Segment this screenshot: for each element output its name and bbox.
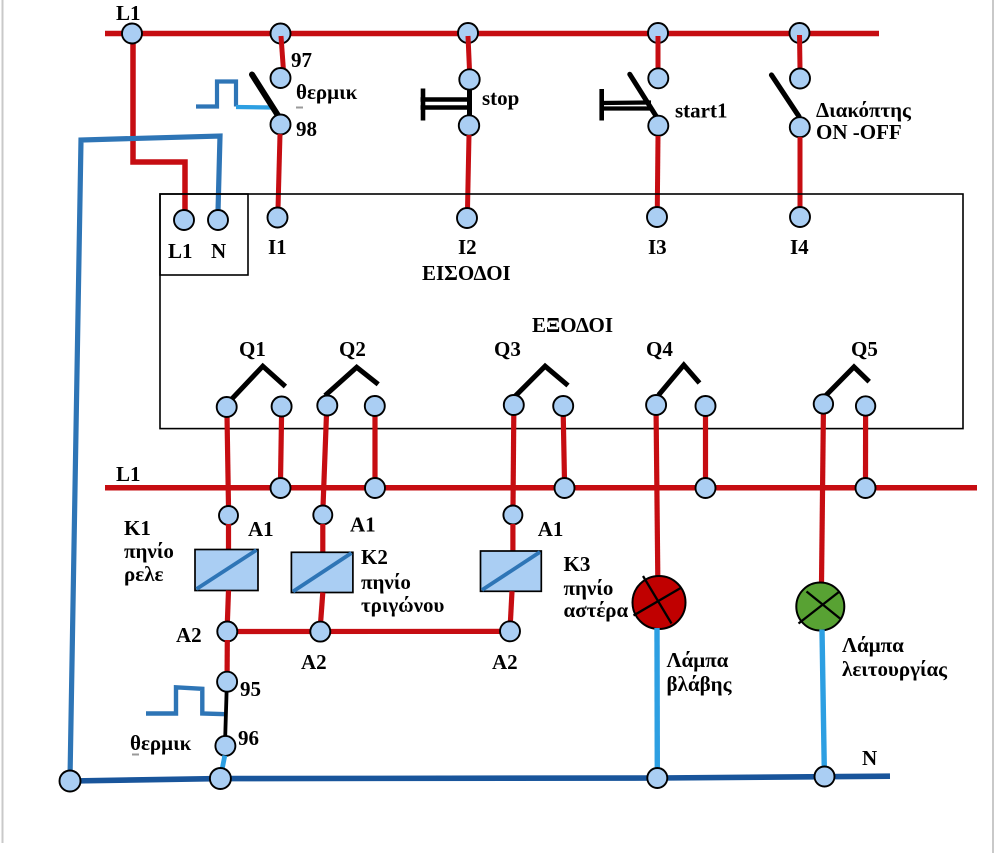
svg-text:λειτουργίας: λειτουργίας — [842, 657, 948, 681]
thermal overload symbol bottom — [146, 687, 226, 714]
svg-text:N: N — [862, 746, 877, 770]
node A2 K1 — [217, 622, 237, 642]
svg-text:πηνίο: πηνίο — [124, 539, 174, 563]
svg-text:L1: L1 — [168, 239, 193, 263]
pin Q5 right — [856, 396, 875, 415]
terminal K1 A1 — [219, 506, 238, 525]
svg-text:ON -OFF: ON -OFF — [816, 120, 902, 144]
wire K1 coil to A2 — [227, 591, 228, 625]
svg-text:I4: I4 — [790, 235, 809, 259]
switch terminal bottom — [790, 117, 810, 137]
pin Q1 right — [272, 397, 292, 417]
label Λάμπα λειτουργίας — [842, 633, 948, 681]
svg-text:start1: start1 — [675, 99, 727, 123]
stray mark under θερμικ top — [296, 107, 303, 109]
wire Q5 left to green lamp — [822, 412, 824, 584]
pin Q3 right — [553, 396, 573, 416]
thermal overload symbol top — [196, 82, 271, 108]
wire rail to start1 — [656, 36, 661, 69]
svg-text:I2: I2 — [458, 235, 477, 259]
node bus-3 — [555, 478, 575, 498]
wire K3 A1 to coil — [510, 524, 515, 552]
terminal 95 — [217, 672, 237, 692]
svg-text:βλάβης: βλάβης — [667, 672, 733, 696]
svg-text:N: N — [211, 239, 226, 263]
terminal I3 — [647, 207, 667, 227]
wire N bottom bus — [70, 776, 890, 781]
wire green lamp to N bus — [822, 630, 824, 771]
coil K1 — [195, 550, 258, 591]
svg-text:πηνίο: πηνίο — [361, 570, 411, 594]
node bus-4 — [696, 478, 716, 498]
node N red lamp — [647, 768, 667, 788]
node N green lamp — [815, 767, 835, 787]
node L1-5 — [790, 23, 810, 43]
terminal 97 — [271, 68, 291, 88]
pin Q4 right — [696, 396, 716, 416]
terminal L1 — [174, 210, 194, 230]
wire Q4 right to bus — [703, 413, 708, 481]
wire rail to switch ON-OFF — [797, 35, 803, 69]
contact blade Q2 — [325, 367, 378, 395]
lamp green run — [796, 583, 844, 631]
svg-text:K2: K2 — [361, 545, 388, 569]
svg-text:A1: A1 — [248, 517, 274, 541]
node N thermal — [210, 768, 231, 789]
node N corner — [60, 771, 81, 792]
terminal I2 — [457, 208, 477, 228]
pin Q5 left — [814, 394, 833, 413]
node bus-1 — [271, 478, 291, 498]
svg-text:Λάμπα: Λάμπα — [667, 648, 729, 672]
PLC box — [160, 194, 963, 429]
terminal N — [208, 210, 228, 230]
wire K3 coil to A2 — [510, 591, 512, 624]
svg-text:Q3: Q3 — [494, 337, 521, 361]
right page border — [992, 0, 994, 853]
svg-text:K1: K1 — [124, 516, 151, 540]
node A2 K2 — [310, 622, 330, 642]
terminal 96 — [215, 736, 235, 756]
contact blade Q4 — [659, 365, 700, 395]
svg-text:A2: A2 — [176, 623, 202, 647]
wire Q3 right to bus — [563, 413, 564, 481]
svg-text:A1: A1 — [538, 517, 564, 541]
coil K3 — [481, 551, 542, 591]
node L1-1 — [122, 24, 142, 44]
wire red lamp to N bus — [654, 628, 660, 772]
wire 98 to I1 — [278, 134, 280, 209]
svg-text:A2: A2 — [492, 650, 518, 674]
wire Q4 left to red lamp — [656, 414, 658, 577]
svg-text:ΕΙΣΟΔΟΙ: ΕΙΣΟΔΟΙ — [422, 261, 511, 285]
terminal K3 A1 — [503, 506, 522, 525]
pin Q2 left — [317, 396, 337, 416]
svg-text:ρελε: ρελε — [124, 562, 164, 586]
svg-text:Διακόπτης: Διακόπτης — [816, 98, 912, 122]
svg-text:I1: I1 — [268, 235, 287, 259]
svg-text:πηνίο: πηνίο — [564, 576, 614, 600]
wire stop to I2 — [468, 135, 470, 209]
wire rail to contact 97 — [281, 36, 284, 71]
wire Q1 right to bus — [281, 413, 282, 481]
label Λάμπα βλάβης — [667, 648, 733, 696]
node A2 K3 — [500, 621, 520, 641]
wire L1 lower bus — [105, 485, 977, 491]
left page border — [2, 0, 4, 843]
wire K2 A1 to coil — [320, 524, 325, 553]
wire K1 A1 to coil — [226, 524, 231, 551]
pin Q2 right — [365, 396, 385, 416]
svg-text:Q2: Q2 — [339, 337, 366, 361]
pin Q3 left — [504, 395, 524, 415]
svg-text:τριγώνου: τριγώνου — [361, 593, 444, 617]
wire Q3 left to K3 A1 — [510, 414, 516, 507]
wire start1 to I3 — [655, 136, 661, 208]
wire 96 to N bus — [222, 756, 225, 772]
svg-text:97: 97 — [291, 48, 312, 72]
start1 terminal top — [648, 68, 668, 88]
coil K2 — [291, 552, 353, 592]
svg-text:95: 95 — [240, 677, 261, 701]
node L1-3 — [458, 23, 478, 43]
wire Q2 left to K2 A1 — [323, 414, 327, 507]
svg-text:L1: L1 — [116, 1, 141, 25]
stop terminal bottom — [459, 115, 479, 135]
svg-text:Q4: Q4 — [646, 337, 673, 361]
svg-text:Q1: Q1 — [239, 337, 266, 361]
svg-text:θερμικ: θερμικ — [130, 731, 192, 755]
node L1-2 — [271, 24, 291, 44]
svg-text:Λάμπα: Λάμπα — [842, 633, 904, 657]
power terminal box — [160, 194, 248, 275]
wire switch to I4 — [798, 137, 803, 208]
contact blade thermal 97-98 — [252, 75, 282, 122]
pushbutton stop (NC) — [421, 86, 472, 121]
wire rail to stop — [468, 36, 470, 70]
svg-text:K3: K3 — [564, 552, 591, 576]
svg-text:A1: A1 — [350, 513, 376, 537]
switch terminal top — [790, 69, 810, 89]
contact 95-96 — [225, 692, 226, 738]
contact blade Q5 — [824, 367, 869, 398]
wire K2 coil to A2 — [321, 593, 323, 625]
wire N loop from terminal N to bottom-left — [70, 136, 220, 779]
svg-text:αστέρα: αστέρα — [564, 598, 629, 622]
terminal I1 — [268, 208, 288, 228]
node bus-5 — [856, 478, 876, 498]
stop terminal top — [459, 69, 479, 89]
switch blade ON-OFF — [772, 75, 800, 117]
wire Q5 right to bus — [863, 413, 868, 481]
svg-text:L1: L1 — [116, 462, 141, 486]
node L1-4 — [648, 23, 668, 43]
node bus-2 — [365, 478, 385, 498]
stray mark under θερμικ bottom — [132, 754, 139, 756]
svg-text:96: 96 — [238, 726, 259, 750]
svg-text:98: 98 — [296, 117, 317, 141]
pin Q4 left — [646, 395, 666, 415]
svg-text:θερμικ: θερμικ — [296, 80, 358, 104]
wire A2 to 95 — [225, 640, 230, 673]
wire L1 feed to terminal L1 — [133, 34, 185, 213]
pushbutton start1 (NO) — [601, 74, 658, 120]
wire Q1 left to K1 A1 — [227, 415, 229, 507]
contact blade Q1 — [228, 366, 285, 403]
svg-text:I3: I3 — [648, 235, 667, 259]
start1 terminal bottom — [648, 116, 668, 136]
pin Q1 left — [217, 397, 237, 417]
lamp red fault — [633, 576, 686, 629]
terminal 98 — [271, 115, 291, 135]
svg-text:Q5: Q5 — [851, 337, 878, 361]
terminal I4 — [790, 207, 810, 227]
svg-text:ΕΞΟΔΟΙ: ΕΞΟΔΟΙ — [532, 313, 613, 337]
svg-text:stop: stop — [482, 86, 519, 110]
svg-text:A2: A2 — [301, 650, 327, 674]
wire L1 top rail — [105, 31, 879, 37]
contact blade Q3 — [515, 366, 568, 396]
wire Q2 right to bus — [372, 413, 377, 481]
wire A2 link — [227, 629, 510, 634]
terminal K2 A1 — [313, 506, 332, 525]
